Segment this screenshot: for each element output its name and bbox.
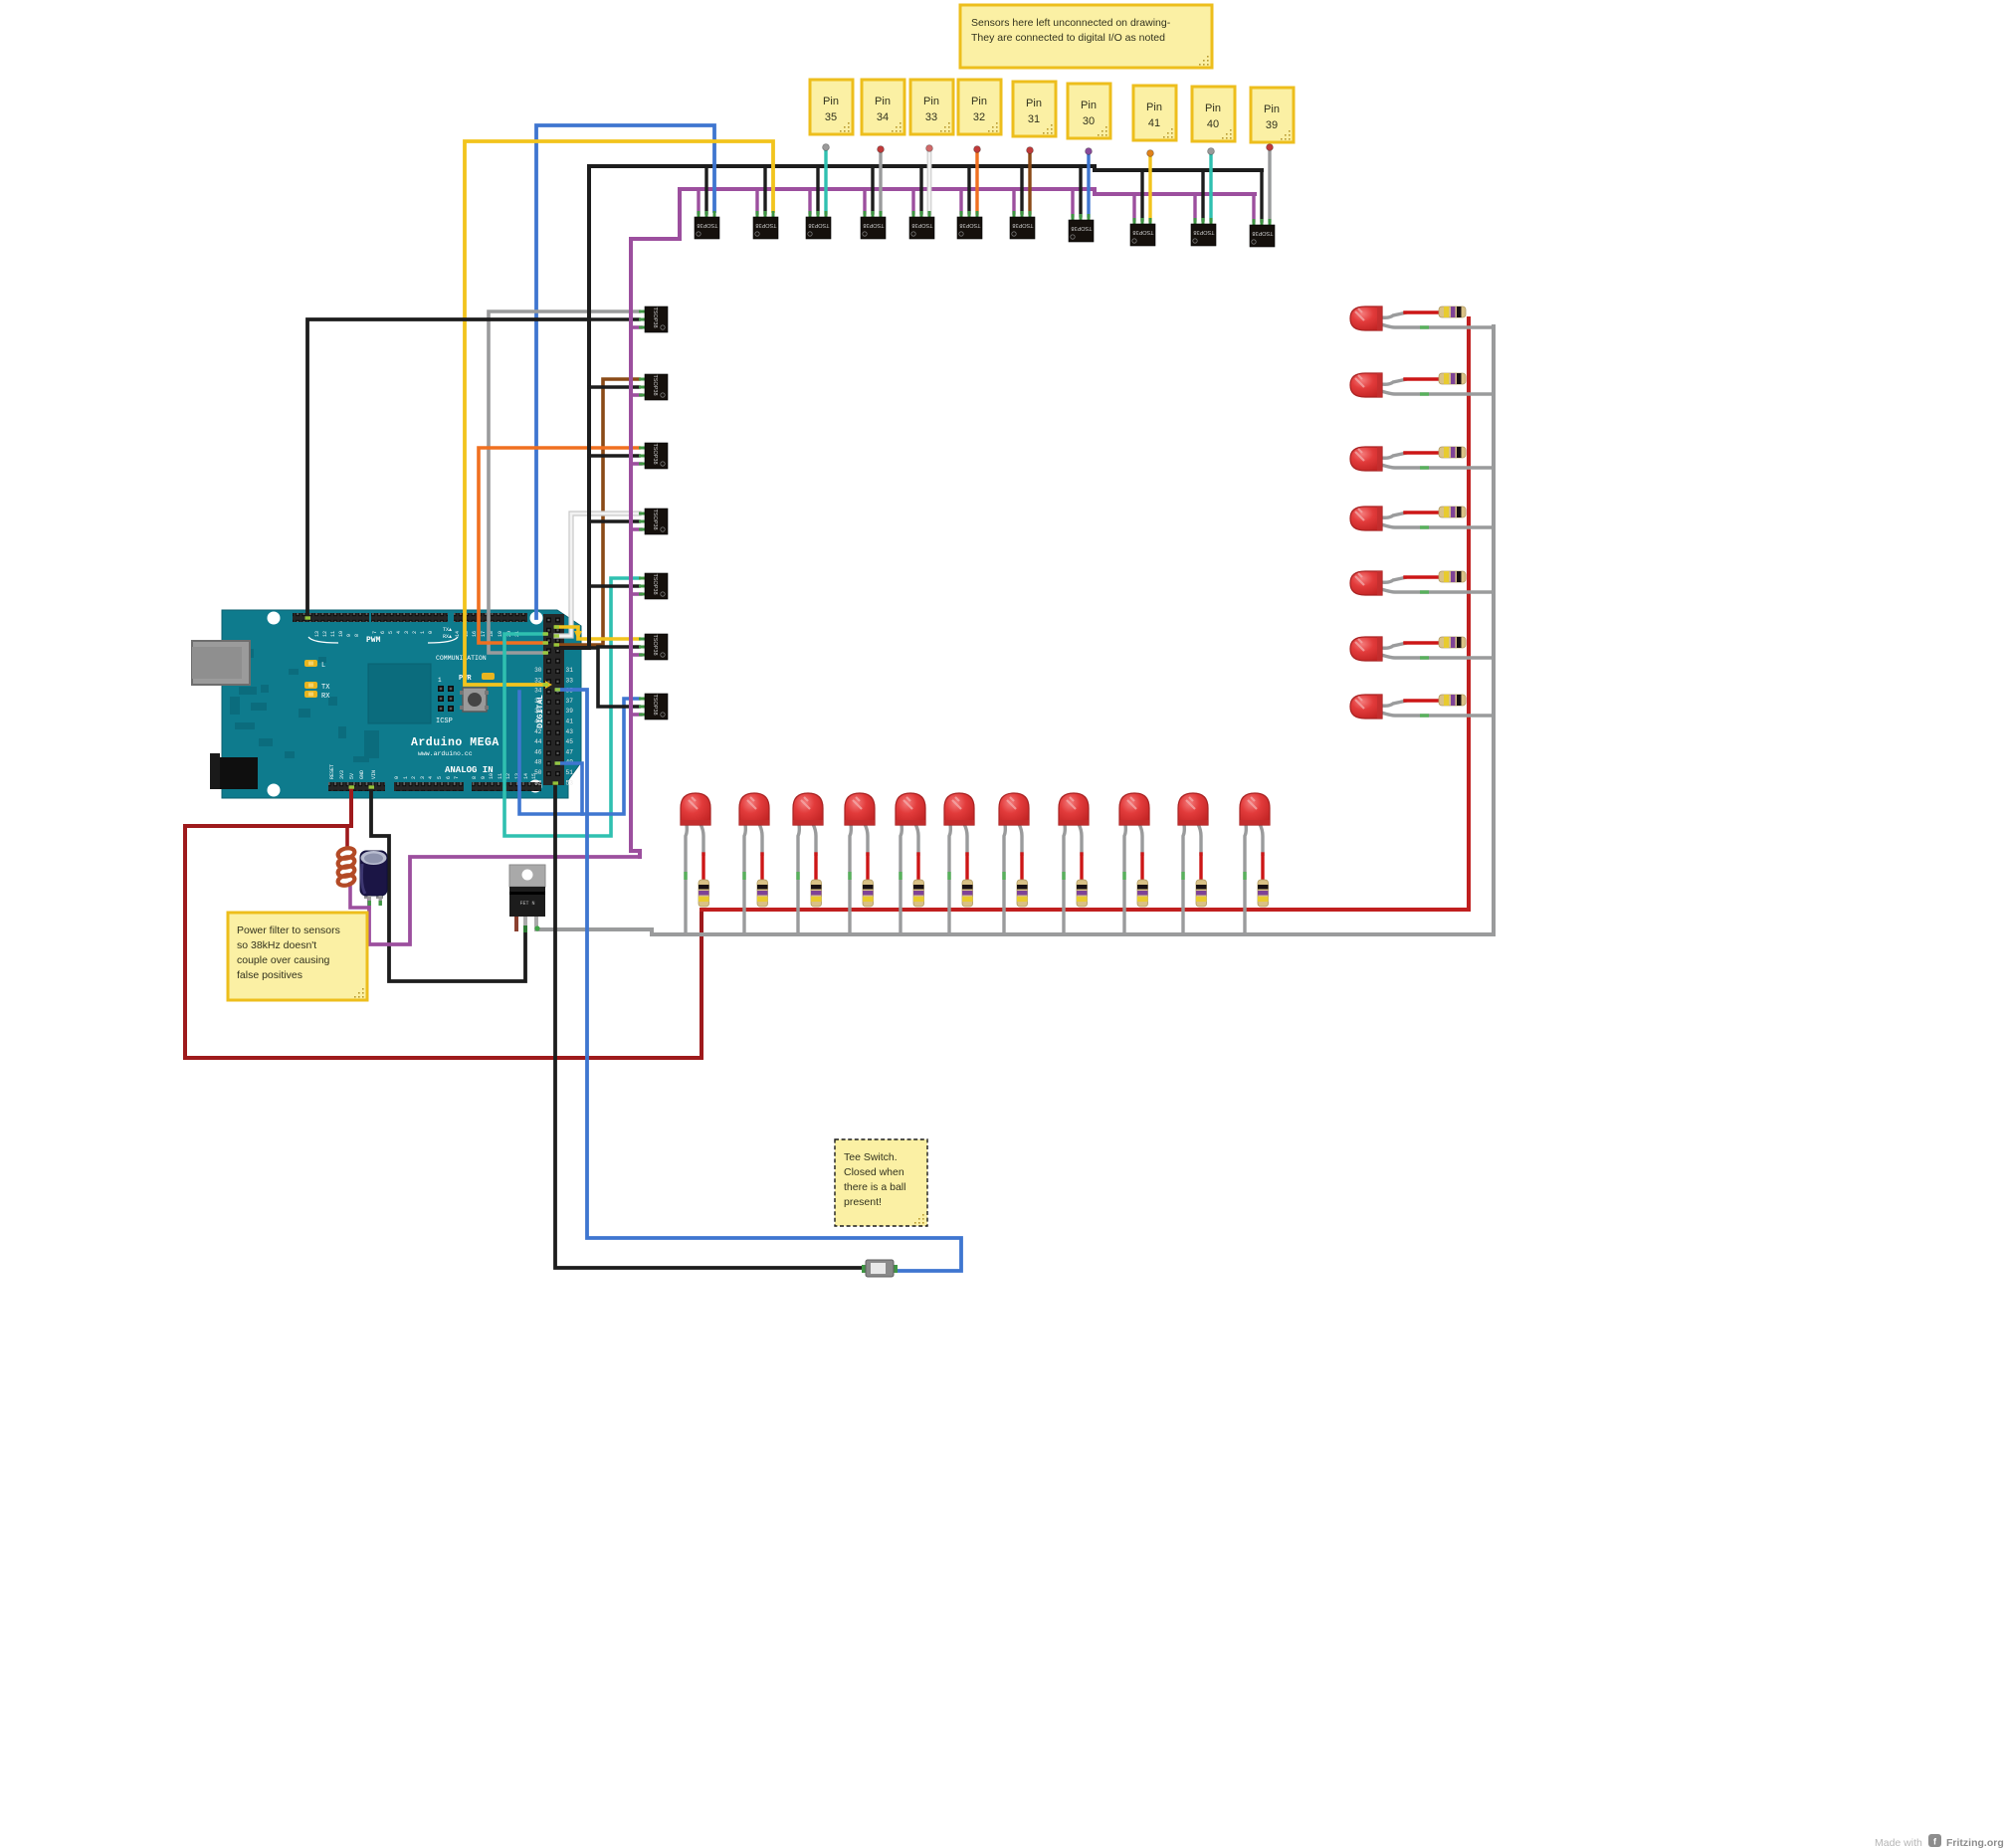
wire: black stub to left sensor pin y=589: [589, 584, 639, 588]
LED D10 body: [1178, 793, 1208, 825]
resistor R7 (bottom row): [1017, 880, 1028, 907]
note: Pin 33: [910, 80, 953, 134]
wire: purple stub sensor U6: [959, 189, 962, 213]
IR sensor U5 (TSOP): [909, 211, 934, 239]
wire: purple stub to left sensor pin y=532: [631, 527, 641, 531]
IR sensor U10 (TSOP): [1191, 218, 1216, 246]
wire: anode leg LED D2: [759, 824, 762, 856]
svg-text:39: 39: [1266, 119, 1278, 131]
svg-text:Power filter to sensors: Power filter to sensors: [237, 924, 340, 936]
svg-text:VIN: VIN: [371, 770, 377, 779]
svg-text:TX▲: TX▲: [443, 627, 452, 633]
wire: anode leg LED D11: [1260, 824, 1263, 856]
wire: cyan signal stub sensor U3: [824, 148, 827, 213]
wire: red segment anode D4: [866, 854, 869, 880]
IR sensor U14 (TSOP): [639, 443, 668, 469]
wire: anode leg LED D7: [1019, 824, 1022, 856]
svg-text:30: 30: [534, 667, 542, 674]
svg-text:8: 8: [472, 776, 478, 779]
resistor R6 (bottom row): [962, 880, 973, 907]
IR sensor U1 (TSOP): [695, 211, 719, 239]
svg-text:52: 52: [534, 779, 542, 786]
svg-text:7: 7: [454, 776, 460, 779]
svg-text:false positives: false positives: [237, 969, 302, 981]
svg-text:19: 19: [498, 631, 503, 637]
LED D11 body: [1240, 793, 1270, 825]
svg-text:12: 12: [505, 773, 511, 779]
svg-text:RX: RX: [321, 693, 330, 701]
wire: cathode leg LED D15: [1381, 524, 1494, 527]
wire: anode leg LED D16: [1381, 577, 1407, 582]
wire: black stub to left sensor pin y=458: [589, 454, 639, 458]
svg-text:2: 2: [411, 776, 417, 779]
wire: black stub sensor U1: [704, 166, 707, 213]
wire: purple stub to left sensor pin y=329: [631, 325, 641, 329]
svg-text:45: 45: [566, 738, 574, 745]
svg-text:12: 12: [322, 631, 328, 637]
svg-text:10: 10: [489, 773, 495, 779]
note: Pin 35: [810, 80, 853, 134]
pin headers bottom: [328, 782, 385, 791]
svg-text:34: 34: [534, 688, 542, 695]
svg-text:TSOP38: TSOP38: [1071, 225, 1092, 231]
svg-text:9: 9: [346, 634, 352, 637]
wire: anode leg LED D3: [813, 824, 816, 856]
note: Pin 30: [1068, 84, 1110, 138]
wire: anode leg LED D17: [1381, 643, 1407, 648]
svg-text:ICSP: ICSP: [436, 718, 453, 725]
wire: purple stub to left sensor pin y=658: [631, 653, 641, 657]
connection nubs: [543, 632, 549, 635]
svg-text:13: 13: [314, 631, 320, 637]
svg-text:53: 53: [566, 779, 574, 786]
svg-text:32: 32: [973, 111, 985, 123]
svg-text:Fritzing.org: Fritzing.org: [1946, 1837, 2004, 1848]
wire: cathode leg LED D17: [1381, 655, 1494, 658]
svg-text:They are connected to digital: They are connected to digital I/O as not…: [971, 32, 1165, 44]
LED D3 body: [793, 793, 823, 825]
wire: black link lower sensors: [556, 648, 639, 707]
wire: orange signal U14: [479, 448, 639, 643]
wire: cathode leg LED D9: [1124, 824, 1125, 935]
wire: black stub sensor U2: [763, 166, 766, 213]
LED D18 body: [1350, 695, 1382, 719]
resistor R11 (bottom row): [1258, 880, 1269, 907]
resistor R3 (bottom row): [811, 880, 822, 907]
resistor R2 (bottom row): [757, 880, 768, 907]
IR sensor U3 (TSOP): [806, 211, 831, 239]
wire: purple stub to left sensor pin y=397: [631, 393, 641, 397]
wire: purple stub sensor U1: [697, 189, 700, 213]
wire: black stub sensor U7: [1020, 166, 1023, 213]
svg-text:TX: TX: [321, 684, 330, 692]
svg-text:Pin: Pin: [1264, 103, 1280, 115]
wire: red segment anode D5: [916, 854, 919, 880]
resistor R15 (right column): [1439, 507, 1466, 517]
svg-text:14: 14: [455, 631, 461, 637]
wire: cathode leg LED D7: [1004, 824, 1005, 935]
svg-text:3V3: 3V3: [339, 770, 345, 779]
wire: red anode bus, bottom LED row: [701, 318, 1469, 910]
resistor R18 (right column): [1439, 695, 1466, 706]
wire: anode leg LED D15: [1381, 513, 1407, 517]
svg-text:present!: present!: [844, 1196, 882, 1208]
wire: red segment anode D1: [701, 854, 704, 880]
LED D12 body: [1350, 307, 1382, 330]
LED D5 body: [896, 793, 925, 825]
svg-text:TSOP38: TSOP38: [697, 222, 717, 228]
wire: purple stub to left sensor pin y=718: [631, 713, 641, 717]
note: sensors unconnected: [960, 5, 1212, 68]
wire: black stub to left sensor pin y=524: [589, 519, 639, 523]
wire: anode leg LED D9: [1139, 824, 1142, 856]
wire: purple stub sensor U5: [911, 189, 914, 213]
svg-text:COMMUNICATION: COMMUNICATION: [436, 655, 487, 662]
svg-text:TSOP38: TSOP38: [863, 222, 884, 228]
wire: white signal U15: [556, 513, 639, 636]
wire: cyan signal stub sensor U10: [1209, 152, 1212, 220]
svg-text:30: 30: [1083, 115, 1095, 127]
svg-text:3: 3: [404, 631, 410, 634]
svg-text:couple over causing: couple over causing: [237, 954, 330, 966]
IR sensor U13 (TSOP): [639, 374, 668, 400]
wire: red segment anode D3: [814, 854, 817, 880]
svg-text:there is a ball: there is a ball: [844, 1181, 905, 1193]
IR sensor U9 (TSOP): [1130, 218, 1155, 246]
LED D2 body: [739, 793, 769, 825]
svg-text:2: 2: [412, 631, 418, 634]
LED D9 body: [1119, 793, 1149, 825]
svg-text:RX▲: RX▲: [443, 634, 452, 640]
footer: Made with Fritzing.org: [1875, 1834, 2004, 1848]
wire: cathode leg LED D8: [1064, 824, 1065, 935]
svg-text:46: 46: [534, 748, 542, 755]
switch S1: [862, 1260, 898, 1277]
svg-text:Pin: Pin: [923, 96, 939, 107]
wire: purple stub sensor U11: [1252, 194, 1255, 221]
svg-text:ANALOG IN: ANALOG IN: [445, 765, 494, 775]
wire: cathode leg LED D13: [1381, 391, 1494, 394]
wire: brown signal U13: [556, 379, 639, 645]
wire: cathode leg LED D18: [1381, 713, 1494, 716]
svg-text:41: 41: [566, 719, 574, 725]
indicator LEDs L TX RX: [304, 660, 317, 667]
wire: blue wire Arduino to tee switch: [557, 690, 961, 1271]
svg-text:1: 1: [438, 677, 442, 684]
svg-text:GND: GND: [359, 770, 365, 779]
IR sensor U8 (TSOP): [1069, 214, 1094, 242]
wire: power bus (purple, top sensor row): [680, 189, 1255, 194]
wire: purple stub to left sensor pin y=597: [631, 592, 641, 596]
note: Pin 39: [1251, 88, 1294, 142]
wire: anode leg LED D10: [1198, 824, 1201, 856]
svg-text:TSOP38: TSOP38: [1132, 229, 1153, 235]
wire: cathode leg LED D1: [686, 824, 687, 935]
resistor R8 (bottom row): [1077, 880, 1088, 907]
svg-text:L: L: [321, 662, 325, 670]
wire: cathode leg LED D2: [744, 824, 745, 935]
svg-text:Pin: Pin: [1205, 103, 1221, 114]
svg-text:43: 43: [566, 728, 574, 735]
wire: red segment anode D13: [1405, 377, 1439, 380]
resistor R17 (right column): [1439, 637, 1466, 648]
pin header right (DIGITAL): [543, 614, 564, 785]
svg-text:7: 7: [372, 631, 378, 634]
svg-text:6: 6: [380, 631, 386, 634]
svg-text:TSOP38: TSOP38: [652, 509, 658, 529]
svg-text:33: 33: [566, 677, 574, 684]
svg-text:Sensors here left unconnected: Sensors here left unconnected on drawing…: [971, 17, 1171, 29]
wire: GND from Arduino to left sensor bus: [307, 319, 589, 618]
svg-text:Pin: Pin: [1026, 98, 1042, 109]
capacitor C1: [360, 851, 387, 906]
arrow: yellow wire end pin 37: [545, 681, 552, 689]
svg-text:Tee Switch.: Tee Switch.: [844, 1151, 898, 1163]
wire: purple stub sensor U8: [1071, 189, 1074, 216]
svg-text:4: 4: [428, 776, 434, 779]
wire: blue signal U18: [557, 699, 639, 814]
svg-text:Arduino MEGA: Arduino MEGA: [411, 736, 500, 749]
resistor R13 (right column): [1439, 373, 1466, 384]
svg-text:0: 0: [394, 776, 400, 779]
wire: purple stub sensor U3: [808, 189, 811, 213]
wire: anode leg LED D14: [1381, 453, 1407, 458]
resistor R12 (right column): [1439, 307, 1466, 317]
LED D15 body: [1350, 507, 1382, 530]
wire: black stub to left sensor pin y=321: [589, 317, 639, 321]
svg-text:TSOP38: TSOP38: [652, 443, 658, 464]
svg-text:11: 11: [330, 631, 336, 637]
svg-text:Pin: Pin: [971, 96, 987, 107]
LED D6 body: [944, 793, 974, 825]
wire: anode leg LED D12: [1381, 312, 1407, 317]
LED D17 body: [1350, 637, 1382, 661]
IR sensor U4 (TSOP): [861, 211, 886, 239]
LED D4 body: [845, 793, 875, 825]
Arduino MEGA board U0: [1, 1, 581, 798]
LED D16 body: [1350, 571, 1382, 595]
wire: purple from inductor to capacitor: [350, 884, 369, 908]
svg-text:8: 8: [354, 634, 360, 637]
wire: black stub sensor U4: [871, 166, 874, 213]
svg-text:5: 5: [437, 776, 443, 779]
wire: purple stub sensor U9: [1132, 194, 1135, 220]
svg-text:10: 10: [338, 631, 344, 637]
svg-text:47: 47: [566, 748, 574, 755]
svg-text:TSOP38: TSOP38: [959, 222, 980, 228]
svg-text:31: 31: [1028, 113, 1040, 125]
wire: black wire Arduino GND to tee switch: [555, 783, 864, 1268]
note: power filter: [228, 913, 367, 1000]
resistor R1 (bottom row): [699, 880, 709, 907]
wire: blue jumper over board: [519, 692, 582, 814]
wire: anode leg LED D5: [915, 824, 918, 856]
IR sensor U12 (TSOP): [639, 307, 668, 332]
note: tee switch: [835, 1139, 927, 1226]
LED D1 body: [681, 793, 710, 825]
svg-text:3: 3: [420, 776, 426, 779]
wire: black stub sensor U6: [967, 166, 970, 213]
LED D8 body: [1059, 793, 1089, 825]
svg-text:TSOP38: TSOP38: [808, 222, 829, 228]
wire: white signal stub sensor U5: [927, 149, 932, 213]
svg-text:TSOP38: TSOP38: [1252, 230, 1273, 236]
wire: anode leg LED D1: [701, 824, 703, 856]
wire: gray signal U12: [489, 311, 639, 653]
svg-text:TSOP38: TSOP38: [652, 694, 658, 715]
wire: GND bus (black, left sensor column): [556, 166, 589, 648]
svg-text:so 38kHz doesn't: so 38kHz doesn't: [237, 939, 316, 951]
svg-text:44: 44: [534, 738, 542, 745]
wire: yellow signal, sensor U2 to Arduino pin 37: [465, 141, 773, 685]
wire: black stub sensor U11: [1260, 170, 1263, 221]
svg-text:37: 37: [566, 698, 574, 705]
svg-text:DIGITAL: DIGITAL: [536, 695, 545, 728]
wire: purple capacitor to sensor power bus: [369, 857, 640, 944]
svg-text:34: 34: [877, 111, 889, 123]
LED D14 body: [1350, 447, 1382, 471]
svg-text:41: 41: [1148, 117, 1160, 129]
svg-text:33: 33: [925, 111, 937, 123]
svg-text:9: 9: [481, 776, 487, 779]
IR sensor U7 (TSOP): [1010, 211, 1035, 239]
svg-text:1: 1: [420, 631, 426, 634]
IR sensor U2 (TSOP): [753, 211, 778, 239]
svg-text:FET N: FET N: [519, 901, 534, 907]
IR sensor U18 (TSOP): [639, 694, 668, 719]
wire: purple stub sensor U2: [755, 189, 758, 213]
svg-text:4: 4: [396, 631, 402, 634]
wire: red segment anode D16: [1405, 575, 1439, 578]
note: Pin 32: [958, 80, 1001, 134]
svg-text:Pin: Pin: [823, 96, 839, 107]
svg-text:14: 14: [523, 773, 529, 779]
arrow: yellow wire bend: [574, 631, 582, 640]
wire: red segment anode D7: [1020, 854, 1023, 880]
wire: cathode leg LED D6: [949, 824, 950, 935]
svg-text:www.arduino.cc: www.arduino.cc: [418, 750, 473, 757]
note: Pin 31: [1013, 82, 1056, 136]
wire: 5V dark red from Arduino: [185, 790, 701, 1058]
svg-text:RESET: RESET: [329, 764, 335, 779]
svg-text:35: 35: [825, 111, 837, 123]
svg-text:TSOP38: TSOP38: [1193, 229, 1214, 235]
wire: cathode leg LED D10: [1183, 824, 1184, 935]
wire: anode leg LED D4: [865, 824, 868, 856]
svg-text:AREF: AREF: [294, 597, 300, 609]
wire: black stub to left sensor pin y=389: [589, 385, 639, 389]
svg-text:TSOP38: TSOP38: [652, 573, 658, 594]
svg-text:40: 40: [1207, 118, 1219, 130]
wire: purple stub to left sensor pin y=466: [631, 462, 641, 466]
wire: anode leg LED D6: [964, 824, 967, 856]
resistor R9 (bottom row): [1137, 880, 1148, 907]
wire: red segment anode D9: [1140, 854, 1143, 880]
IR sensor U16 (TSOP): [639, 573, 668, 599]
resistor R5 (bottom row): [913, 880, 924, 907]
wire: GND bus (black, top sensor row): [589, 166, 1262, 170]
wire: cathode leg LED D14: [1381, 465, 1494, 468]
wire: anode leg LED D18: [1381, 701, 1407, 706]
wire: orange signal stub sensor U6: [975, 150, 978, 213]
svg-text:11: 11: [498, 773, 503, 779]
IR sensor U11 (TSOP): [1250, 219, 1275, 247]
svg-text:TSOP38: TSOP38: [652, 307, 658, 327]
resistor R14 (right column): [1439, 447, 1466, 458]
wire: blue signal stub sensor U8: [1087, 152, 1090, 216]
wire: purple stub sensor U7: [1012, 189, 1015, 213]
wire: red segment anode D17: [1405, 641, 1439, 644]
svg-text:6: 6: [446, 776, 452, 779]
LED D7 body: [999, 793, 1029, 825]
svg-text:TSOP38: TSOP38: [652, 634, 658, 655]
wire: purple stub sensor U4: [863, 189, 866, 213]
wire: purple stub sensor U10: [1193, 194, 1196, 220]
wire: dark red stub to inductor: [345, 826, 349, 848]
power jack: [210, 757, 258, 789]
svg-text:0: 0: [428, 631, 434, 634]
wire: cathode leg LED D5: [901, 824, 902, 935]
wire: yellow signal U17: [556, 627, 639, 639]
svg-text:Pin: Pin: [875, 96, 891, 107]
wire: cyan signal U16: [504, 578, 639, 836]
svg-text:Closed when: Closed when: [844, 1166, 904, 1178]
resistor R16 (right column): [1439, 571, 1466, 582]
resistor R10 (bottom row): [1196, 880, 1207, 907]
wire: black stub sensor U10: [1201, 170, 1204, 220]
svg-text:TSOP38: TSOP38: [755, 222, 776, 228]
wire: cathode leg LED D12: [1381, 324, 1494, 327]
svg-text:17: 17: [481, 631, 487, 637]
wire: red segment anode D18: [1405, 699, 1439, 702]
wire: cathode leg LED D16: [1381, 589, 1494, 592]
reset button: [463, 688, 487, 712]
LED D13 body: [1350, 373, 1382, 397]
wire: red segment anode D14: [1405, 451, 1439, 454]
svg-text:TSOP38: TSOP38: [911, 222, 932, 228]
wire: red segment anode D15: [1405, 511, 1439, 513]
svg-text:5V: 5V: [349, 773, 355, 779]
ICSP header: [438, 686, 444, 692]
note: Pin 41: [1133, 86, 1176, 140]
wire: power bus (purple, left sensor column): [631, 189, 680, 857]
IR sensor U15 (TSOP): [639, 509, 668, 534]
wire: cathode leg LED D4: [850, 824, 851, 935]
IR sensor U6 (TSOP): [957, 211, 982, 239]
svg-text:31: 31: [566, 667, 574, 674]
wire: red segment anode D8: [1080, 854, 1083, 880]
svg-text:48: 48: [534, 759, 542, 766]
wire: cathode leg LED D3: [798, 824, 799, 935]
wire: red segment anode D10: [1199, 854, 1202, 880]
svg-text:5: 5: [388, 631, 394, 634]
svg-text:39: 39: [566, 708, 574, 715]
wire: black stub sensor U8: [1079, 166, 1082, 216]
inductor L1: [337, 847, 356, 888]
resistor R4 (bottom row): [863, 880, 874, 907]
wire: black stub sensor U3: [816, 166, 819, 213]
wire: red segment anode D2: [760, 854, 763, 880]
wire: cathode leg LED D11: [1245, 824, 1246, 935]
svg-text:Pin: Pin: [1081, 100, 1097, 111]
svg-text:TSOP38: TSOP38: [652, 374, 658, 395]
note: Pin 34: [862, 80, 904, 134]
svg-text:PWM: PWM: [366, 636, 381, 645]
wire: red segment anode D11: [1261, 854, 1264, 880]
wire: anode leg LED D8: [1079, 824, 1082, 856]
pin headers top: [293, 613, 369, 622]
svg-text:Made with: Made with: [1875, 1837, 1922, 1848]
